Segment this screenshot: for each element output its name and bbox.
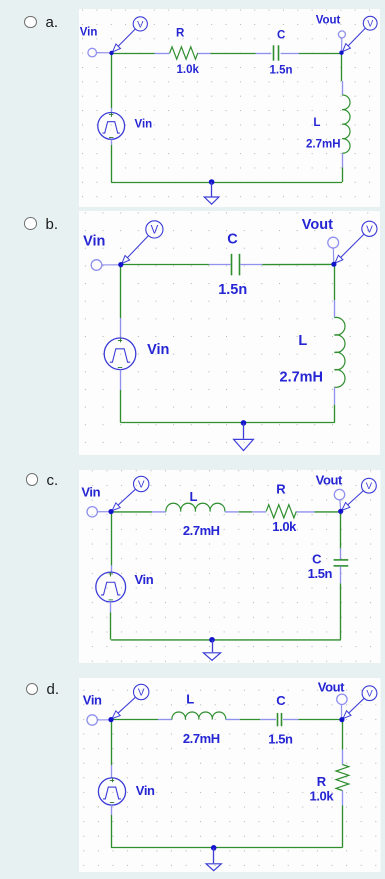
svg-text:C: C	[227, 231, 238, 247]
svg-text:V: V	[151, 225, 159, 237]
svg-text:Vout: Vout	[318, 680, 345, 695]
svg-text:1.5n: 1.5n	[218, 282, 247, 298]
svg-text:Vout: Vout	[302, 217, 333, 233]
svg-text:2.7mH: 2.7mH	[306, 139, 341, 151]
svg-text:R: R	[176, 27, 185, 39]
svg-text:Vin: Vin	[83, 234, 105, 250]
svg-text:C: C	[277, 30, 285, 42]
svg-text:1.0k: 1.0k	[177, 64, 200, 76]
svg-text:L: L	[186, 692, 194, 707]
svg-text:V: V	[137, 19, 144, 30]
svg-text:V: V	[138, 688, 145, 699]
svg-text:L: L	[298, 333, 307, 349]
svg-text:2.7mH: 2.7mH	[280, 369, 324, 385]
svg-text:C: C	[276, 693, 286, 708]
svg-text:1.5n: 1.5n	[268, 731, 293, 746]
svg-text:R: R	[317, 774, 327, 789]
svg-text:L: L	[313, 117, 320, 129]
svg-text:R: R	[276, 481, 286, 496]
svg-text:Vout: Vout	[316, 472, 343, 487]
svg-text:V: V	[366, 224, 373, 235]
svg-text:Vin: Vin	[135, 118, 153, 130]
svg-text:1.0k: 1.0k	[310, 789, 335, 804]
svg-text:1.5n: 1.5n	[308, 566, 333, 581]
svg-text:V: V	[138, 479, 145, 490]
svg-text:V: V	[366, 481, 373, 492]
svg-text:Vin: Vin	[135, 571, 154, 586]
svg-text:1.5n: 1.5n	[270, 64, 293, 76]
svg-text:V: V	[367, 18, 373, 28]
svg-text:V: V	[366, 689, 373, 700]
svg-text:2.7mH: 2.7mH	[183, 731, 220, 746]
svg-text:L: L	[190, 489, 198, 504]
svg-text:1.0k: 1.0k	[272, 518, 297, 533]
svg-text:C: C	[312, 551, 322, 566]
svg-text:Vin: Vin	[147, 342, 169, 358]
svg-text:Vin: Vin	[81, 484, 100, 499]
svg-text:2.7mH: 2.7mH	[183, 523, 220, 538]
svg-text:Vin: Vin	[80, 26, 98, 38]
svg-text:Vin: Vin	[136, 783, 155, 798]
svg-text:Vin: Vin	[83, 692, 102, 707]
svg-text:Vout: Vout	[316, 15, 341, 27]
